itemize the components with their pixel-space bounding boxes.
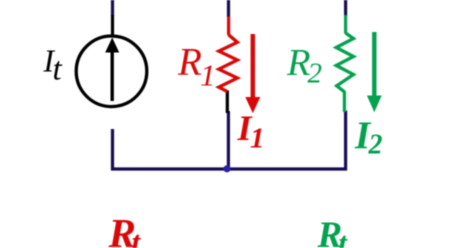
svg-text:1: 1 xyxy=(200,58,216,93)
svg-text:t: t xyxy=(338,225,348,248)
svg-text:1: 1 xyxy=(250,123,265,155)
svg-text:2: 2 xyxy=(308,58,323,90)
svg-text:2: 2 xyxy=(368,129,383,160)
svg-text:t: t xyxy=(132,224,142,248)
svg-text:t: t xyxy=(53,52,63,88)
svg-text:R: R xyxy=(177,41,202,84)
